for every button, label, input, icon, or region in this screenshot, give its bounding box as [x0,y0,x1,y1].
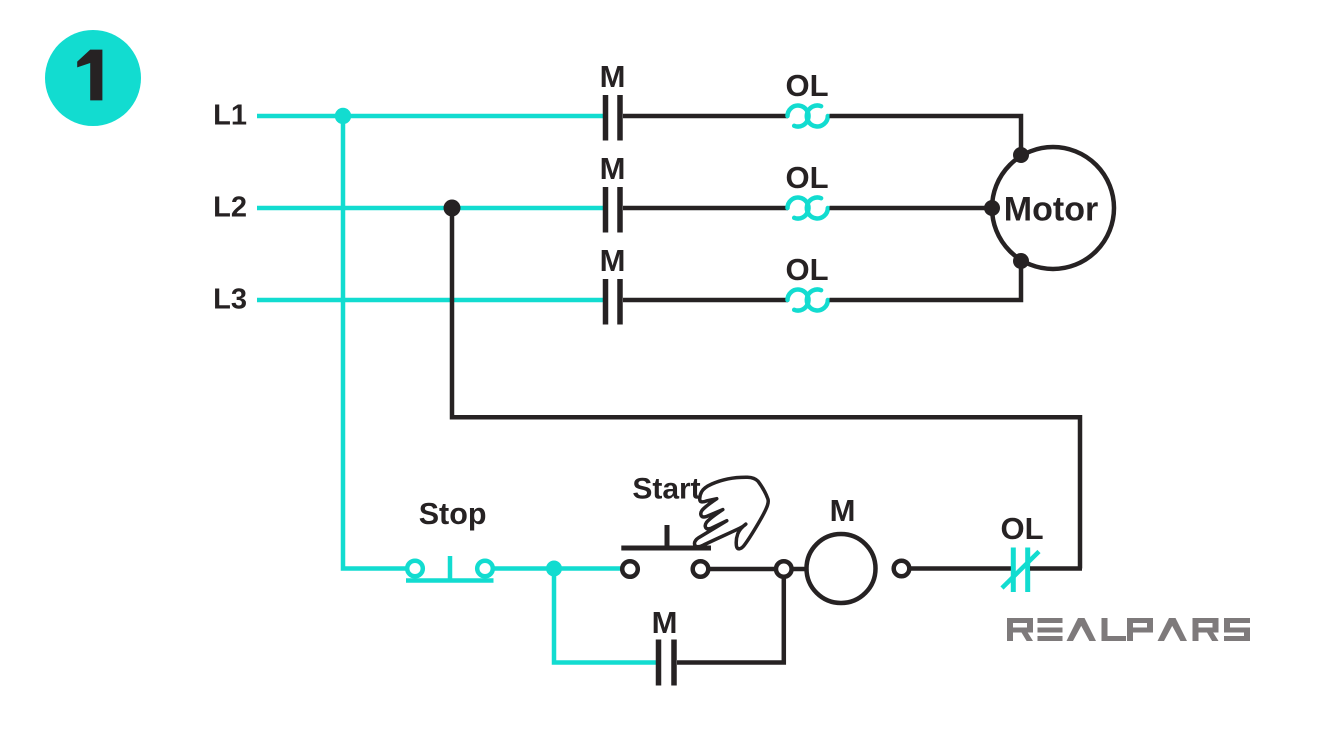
terminal circle coil right [894,561,910,577]
pushbutton Start (NO) [621,525,711,577]
svg-text:OL: OL [785,160,828,195]
wire pole1 to OL1 [623,114,788,119]
wire OL1 to motor T1 [830,116,1022,155]
motor terminal T2 dot [984,200,1000,216]
step badge 1 [45,30,141,126]
svg-text:M: M [600,151,626,186]
svg-text:L2: L2 [213,191,247,223]
wire Stop to junction [493,566,554,571]
svg-text:Motor: Motor [1004,191,1098,229]
hand icon pressing start [694,477,768,549]
junction dot on L1 [335,108,351,124]
motor terminal T1 dot [1013,147,1029,163]
wire Start to aux junction [708,567,776,572]
wire coil to OL contact [909,566,1011,571]
overload heater OL1 [788,105,828,126]
wire pole3 to OL3 [623,298,788,303]
contact M main pole 1 [606,95,621,141]
terminal circle aux junction [776,561,792,577]
wire L1 supply [257,114,603,119]
coil M [807,534,876,603]
wire OL contact to neutral [1030,566,1082,571]
svg-text:M: M [600,59,626,94]
motor M1 [992,147,1114,269]
svg-text:OL: OL [785,252,828,287]
contact M main pole 3 [606,279,621,325]
wire aux contact to junction [677,577,784,663]
wire L2 supply [257,206,603,211]
svg-text:M: M [830,493,856,528]
overload heater OL2 [788,197,828,218]
junction dot on L2 [444,200,461,217]
wire OL3 to motor T3 [830,261,1022,300]
contact OL (NC) [1002,548,1039,593]
junction dot control [546,561,562,577]
overload heater OL3 [788,289,828,310]
wire junction to Start [554,566,622,571]
svg-text:M: M [652,605,678,640]
wire neutral drop from L2 to control rung [452,208,1080,569]
wire pole2 to OL2 [623,206,788,211]
svg-text:OL: OL [1000,511,1043,546]
logo REALPARS [1007,618,1250,641]
svg-text:Stop: Stop [419,497,487,531]
pushbutton Stop (NC) [406,556,494,581]
svg-text:Start: Start [632,473,700,506]
wire control bus drop from L1 [343,116,406,569]
wire aux junction to coil [792,567,807,572]
svg-text:L3: L3 [213,283,247,315]
svg-text:M: M [600,243,626,278]
motor terminal T3 dot [1013,253,1029,269]
wire L3 supply [257,298,603,303]
svg-text:L1: L1 [213,99,247,131]
contact M main pole 2 [606,187,621,233]
wire OL2 to motor T2 [830,206,993,211]
contact M auxiliary [659,640,675,686]
wire seal-in branch [554,569,656,663]
svg-text:OL: OL [785,68,828,103]
